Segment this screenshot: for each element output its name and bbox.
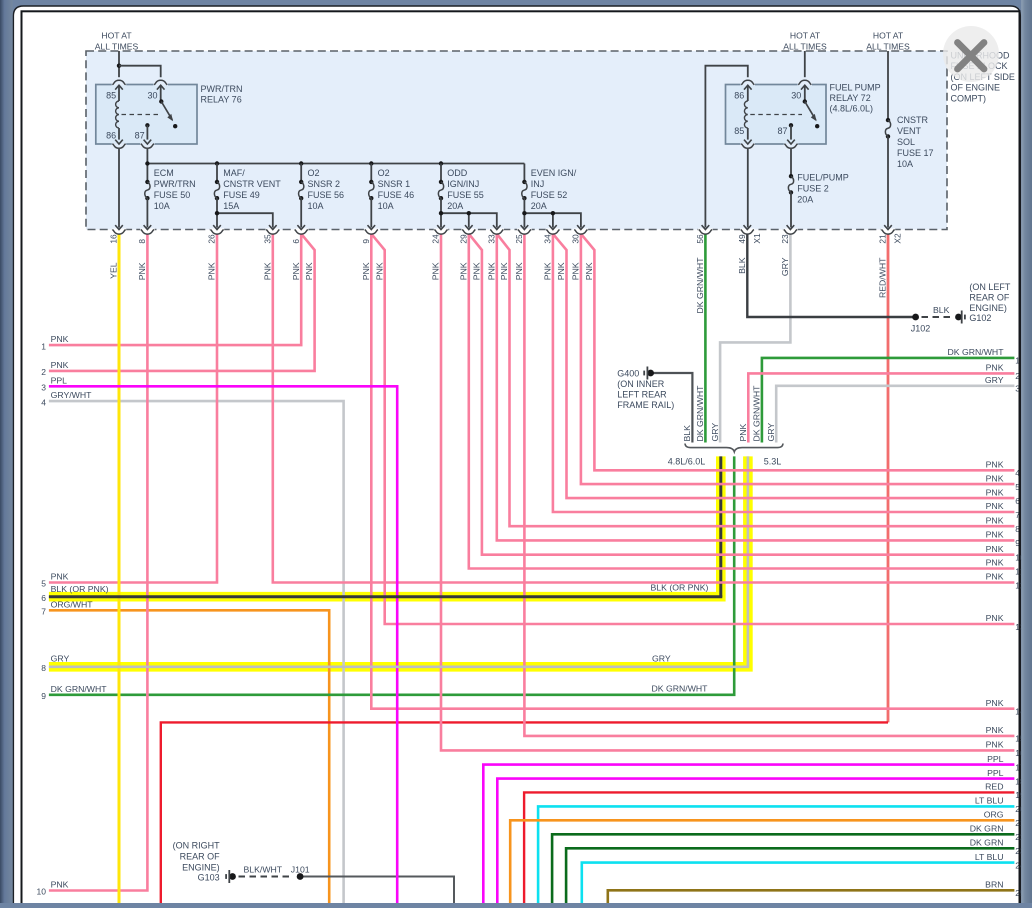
svg-text:SNSR 2: SNSR 2 [308, 179, 341, 189]
svg-text:PNK: PNK [262, 262, 272, 280]
svg-text:PNK: PNK [986, 501, 1004, 511]
arrow into relay76 pin 30 [157, 85, 165, 89]
svg-text:23: 23 [780, 234, 790, 244]
svg-text:BLK: BLK [682, 425, 692, 442]
fuse F49 MAF/CNSTR VENT 15A [216, 164, 218, 182]
svg-text:24: 24 [431, 234, 441, 244]
wire RED highlighted run to bottom [161, 722, 888, 903]
wire PNK pin 33 to right edge 9 [497, 234, 1015, 541]
svg-text:BLK: BLK [737, 257, 747, 274]
collar relay76 pin 87 [141, 144, 154, 149]
svg-text:FRAME RAIL): FRAME RAIL) [617, 400, 674, 410]
svg-text:PNK: PNK [514, 262, 524, 280]
svg-text:DK GRN/WHT: DK GRN/WHT [695, 385, 705, 442]
wire BLK G400 to brace [651, 373, 693, 443]
brace engine variants [685, 444, 783, 452]
wire YEL pin 16 down [118, 234, 121, 903]
svg-text:PNK: PNK [499, 262, 509, 280]
svg-text:PNK: PNK [986, 544, 1004, 554]
svg-text:PNK: PNK [584, 262, 594, 280]
wire BLK/WHT J101 run to bottom [300, 877, 454, 904]
svg-text:PNK: PNK [738, 423, 748, 441]
relay76 coil wire pin 85 to 86 [118, 85, 120, 101]
fuse F56 O2 SNSR2 10A [300, 164, 302, 182]
connector pin 8 [140, 229, 154, 232]
svg-text:PNK: PNK [486, 262, 496, 280]
svg-text:GRY: GRY [710, 423, 720, 442]
svg-text:PNK: PNK [986, 460, 1004, 470]
svg-text:3: 3 [41, 383, 46, 393]
relay76 switch contact [173, 124, 177, 128]
wire PNK pin 9 branch to right edge 13 [371, 234, 1014, 624]
relay72 pin 87 node [789, 123, 793, 127]
svg-text:X2: X2 [893, 233, 903, 244]
wire PNK 5.3L to right edge 2 [748, 373, 1014, 442]
wire DK GRN right edge 23 to bottom [566, 848, 1014, 903]
svg-text:20A: 20A [531, 201, 547, 211]
svg-text:(4.8L/6.0L): (4.8L/6.0L) [830, 103, 874, 113]
wire 6 core BLK (OR PNK) horizontal [49, 595, 722, 598]
svg-text:(ON LEFT: (ON LEFT [969, 282, 1011, 292]
svg-text:7: 7 [41, 607, 46, 617]
relay76 coil [116, 101, 119, 128]
connector pin 29 [462, 229, 476, 232]
svg-text:PNK: PNK [986, 725, 1004, 735]
svg-text:DK GRN: DK GRN [970, 838, 1004, 848]
wire PNK pin 29 to right edge 11 [469, 234, 1015, 569]
svg-text:5: 5 [41, 579, 46, 589]
wire LT BLU right edge 24 to bottom [582, 863, 1015, 903]
svg-text:G103: G103 [198, 872, 220, 882]
svg-text:ENGINE): ENGINE) [182, 862, 220, 872]
svg-text:56: 56 [695, 234, 705, 244]
feed wire HOT AT ALL TIMES relay72 pin 30 [804, 51, 806, 77]
svg-text:GRY: GRY [985, 375, 1004, 385]
wire relay76 pin87 to fuse bus [146, 149, 148, 182]
svg-text:MAF/: MAF/ [223, 168, 245, 178]
svg-text:VENT: VENT [897, 126, 922, 136]
svg-text:PNK: PNK [374, 262, 384, 280]
wire ORG/WHT left edge 7 down [49, 610, 329, 903]
svg-text:25: 25 [514, 234, 524, 244]
svg-text:DK GRN: DK GRN [970, 824, 1004, 834]
bus junction nodes [145, 161, 149, 165]
wire PNK pin 34 to right edge 7 [553, 234, 1015, 512]
relay box FUEL PUMP RELAY 72 [726, 85, 827, 145]
svg-text:4: 4 [41, 397, 46, 407]
connector pin 34 [546, 229, 560, 232]
arrow out relay76 pin 87 [144, 140, 152, 144]
wire GRY pin 23 to brace [720, 234, 790, 443]
svg-text:PNK: PNK [543, 262, 553, 280]
relay76 switch pivot pin 30 [160, 85, 162, 101]
svg-text:PNK: PNK [137, 262, 147, 280]
ground G400 [647, 370, 654, 377]
svg-text:GRY: GRY [51, 653, 70, 663]
arrow into relay72 pin 30 [801, 85, 809, 89]
wire DK GRN/WHT 5.3L to right edge 1 [762, 358, 1015, 443]
wire relay72 pin87 to fuse 2 [790, 149, 792, 176]
connector pin 24 [434, 229, 448, 232]
svg-text:1: 1 [41, 341, 46, 351]
svg-text:PNK: PNK [986, 487, 1004, 497]
relay72 coil [744, 101, 747, 128]
svg-text:G400: G400 [617, 369, 639, 379]
svg-text:ECM: ECM [154, 168, 174, 178]
svg-text:INJ: INJ [531, 179, 545, 189]
connector pin 6 [294, 229, 308, 232]
F49 split bar [217, 213, 273, 227]
svg-text:HOT AT: HOT AT [101, 31, 132, 41]
wire PNK pin 6 to left edge 1 [49, 234, 301, 345]
svg-text:RELAY 72: RELAY 72 [830, 93, 871, 103]
svg-text:10A: 10A [308, 201, 324, 211]
wire PNK pin 30 to right edge 5 [581, 234, 1015, 484]
wire relay72 pin85 to pin49 exit [747, 149, 749, 228]
arrow out relay72 pin 85 [744, 140, 752, 144]
svg-text:15A: 15A [223, 201, 239, 211]
wire branch to relay 76 pin 30 [119, 66, 161, 78]
svg-text:87: 87 [777, 126, 787, 136]
wire PPL right edge 17 to bottom [483, 765, 1014, 903]
svg-text:CNSTR VENT: CNSTR VENT [223, 179, 281, 189]
svg-text:O2: O2 [378, 168, 390, 178]
svg-text:EVEN IGN/: EVEN IGN/ [531, 168, 577, 178]
wire ORG right edge 21 to bottom [510, 820, 1014, 903]
svg-text:FUSE 55: FUSE 55 [447, 190, 484, 200]
svg-text:DK GRN/WHT: DK GRN/WHT [752, 385, 762, 442]
svg-text:DK GRN/WHT: DK GRN/WHT [51, 684, 108, 694]
svg-text:8: 8 [137, 239, 147, 244]
arrow out relay72 pin 87 [787, 140, 795, 144]
connector pin 9 [364, 229, 378, 232]
svg-text:GRY: GRY [652, 653, 671, 663]
close button [943, 26, 999, 82]
connector pin 21 [881, 229, 895, 232]
svg-text:PNK: PNK [986, 530, 1004, 540]
wire 8 core GRY horizontal [49, 665, 749, 668]
svg-text:CNSTR: CNSTR [897, 115, 928, 125]
svg-text:PNK: PNK [571, 262, 581, 280]
wire PNK pin 9 to right edge 14 [371, 234, 1014, 709]
svg-text:GRY: GRY [766, 423, 776, 442]
relay76 pin 87 wire [146, 125, 148, 139]
svg-text:REAR OF: REAR OF [180, 851, 221, 861]
collar relay72 pin 87 [784, 144, 797, 149]
connector pin 35 [266, 229, 280, 232]
svg-text:LT BLU: LT BLU [975, 852, 1004, 862]
svg-text:ALL TIMES: ALL TIMES [95, 41, 139, 51]
svg-text:49: 49 [737, 234, 747, 244]
F52 split bar [524, 213, 581, 227]
relay box PWR/TRN RELAY 76 [96, 85, 197, 145]
svg-text:BLK (OR PNK): BLK (OR PNK) [651, 583, 709, 593]
fuse CNSTR VENT SOL FUSE 17 10A [886, 118, 890, 122]
wire PNK pin 29 branch to right edge 10 [469, 234, 1015, 555]
svg-text:16: 16 [109, 234, 119, 244]
svg-text:ALL TIMES: ALL TIMES [783, 41, 827, 51]
svg-text:FUSE 52: FUSE 52 [531, 190, 568, 200]
svg-text:GRY: GRY [780, 257, 790, 276]
arrow out relay76 pin 86 [115, 140, 123, 144]
collar relay72 pin 30 [798, 80, 811, 85]
svg-text:J102: J102 [911, 324, 931, 334]
svg-text:PNK: PNK [458, 262, 468, 280]
svg-text:4.8L/6.0L: 4.8L/6.0L [668, 456, 706, 466]
svg-text:10A: 10A [897, 159, 913, 169]
wire PNK pin 24 to right edge 16 [441, 234, 1014, 751]
wire PNK pin 8 to left edge 10 [49, 234, 147, 891]
wire 8 core vertical segment [747, 456, 750, 666]
svg-text:PNK: PNK [207, 262, 217, 280]
relay72 switch contact [815, 124, 819, 128]
relay72 switch blade [805, 102, 816, 120]
svg-text:(ON INNER: (ON INNER [617, 379, 665, 389]
svg-text:PNK: PNK [986, 740, 1004, 750]
svg-text:OF ENGINE: OF ENGINE [951, 83, 1001, 93]
svg-text:ENGINE): ENGINE) [969, 303, 1007, 313]
svg-text:DK GRN/WHT: DK GRN/WHT [652, 684, 709, 694]
junction node relay 76 feed [117, 63, 121, 67]
svg-text:30: 30 [791, 91, 801, 101]
wire PPL right edge 18 to bottom [497, 779, 1014, 903]
svg-text:PNK: PNK [986, 613, 1004, 623]
svg-text:PNK: PNK [986, 572, 1004, 582]
connector pin 33 [490, 229, 504, 232]
wire PNK pin 34 branch to right edge 6 [553, 234, 1015, 498]
fuse F52 EVEN IGN/INJ 20A [523, 164, 525, 182]
relay72 pin 87 wire [790, 125, 792, 139]
svg-text:PPL: PPL [987, 768, 1004, 778]
arrow into relay72 pin 86 [744, 85, 752, 89]
svg-text:ORG/WHT: ORG/WHT [51, 599, 94, 609]
svg-text:SOL: SOL [897, 137, 915, 147]
svg-text:9: 9 [361, 239, 371, 244]
relay72 coil wire [747, 85, 749, 101]
wire PNK pin 30 branch to right edge 4 [581, 234, 1015, 470]
collar relay76 pin 30 [154, 80, 167, 85]
wire PPL left edge 3 down [49, 386, 397, 903]
wire CNSTR VENT SOL fuse feed [887, 51, 889, 120]
svg-text:GRY/WHT: GRY/WHT [51, 390, 93, 400]
svg-text:DK GRN/WHT: DK GRN/WHT [695, 257, 705, 314]
connector pin 49 [740, 229, 754, 232]
fuse bus [147, 163, 524, 165]
svg-text:20A: 20A [797, 194, 813, 204]
svg-text:ALL TIMES: ALL TIMES [866, 41, 910, 51]
svg-text:30: 30 [571, 234, 581, 244]
connector pin 23 [783, 229, 797, 232]
fuse FUEL/PUMP FUSE 2 20A [789, 174, 793, 178]
connector pin 16 [112, 229, 126, 232]
wire relay72 pin 86 up-over-down to pin 56 exit [705, 66, 747, 228]
svg-text:HOT AT: HOT AT [873, 31, 904, 41]
svg-text:86: 86 [734, 91, 744, 101]
svg-text:10: 10 [37, 887, 47, 897]
svg-text:10A: 10A [154, 201, 170, 211]
svg-text:BLK: BLK [933, 305, 950, 315]
svg-text:BLK/WHT: BLK/WHT [244, 864, 283, 874]
svg-text:PNK: PNK [51, 572, 69, 582]
wire 6 core vertical segment [719, 456, 722, 596]
svg-text:PNK: PNK [51, 360, 69, 370]
svg-text:PNK: PNK [361, 262, 371, 280]
svg-text:RED/WHT: RED/WHT [878, 257, 888, 298]
svg-text:PPL: PPL [51, 375, 68, 385]
svg-text:LT BLU: LT BLU [975, 796, 1004, 806]
svg-text:21: 21 [878, 234, 888, 244]
svg-text:FUSE 50: FUSE 50 [154, 190, 191, 200]
svg-text:34: 34 [543, 234, 553, 244]
svg-text:O2: O2 [308, 168, 320, 178]
collar relay76 pin 85 [112, 80, 125, 85]
svg-text:33: 33 [486, 234, 496, 244]
svg-text:FUSE 17: FUSE 17 [897, 148, 934, 158]
wire BLK pin 49 to J102 [747, 234, 915, 317]
svg-text:2: 2 [41, 367, 46, 377]
collar relay76 pin 86 [112, 144, 125, 149]
wire BRN right edge 25 to bottom [608, 890, 1015, 903]
svg-text:30: 30 [147, 91, 157, 101]
svg-text:85: 85 [734, 126, 744, 136]
highlight band wire 6 BLK (OR PNK) [49, 456, 721, 596]
wire PNK pin 26 to left edge 5 [49, 234, 217, 583]
wire PNK pin 35 to right edge 12 [273, 234, 1015, 583]
svg-text:(ON RIGHT: (ON RIGHT [173, 840, 220, 850]
svg-text:85: 85 [106, 91, 116, 101]
wire DK GRN right edge 22 to bottom [552, 834, 1014, 903]
highlight band wire 8 GRY [49, 456, 748, 666]
svg-text:HOT AT: HOT AT [790, 31, 821, 41]
svg-text:6: 6 [291, 239, 301, 244]
svg-text:86: 86 [106, 131, 116, 141]
svg-text:20A: 20A [447, 201, 463, 211]
svg-text:REAR OF: REAR OF [969, 293, 1010, 303]
svg-text:IGN/INJ: IGN/INJ [447, 179, 479, 189]
collar relay72 pin 85 [741, 144, 754, 149]
svg-text:PNK: PNK [291, 262, 301, 280]
svg-text:FUSE 46: FUSE 46 [378, 190, 415, 200]
svg-text:ORG: ORG [984, 810, 1004, 820]
connector pin 25 [517, 229, 531, 232]
connector pin 26 [210, 229, 224, 232]
svg-text:PNK: PNK [431, 262, 441, 280]
svg-text:PNK: PNK [986, 515, 1004, 525]
wire relay76 pin86 to pin16 exit [118, 149, 120, 228]
svg-text:PNK: PNK [986, 473, 1004, 483]
svg-text:9: 9 [41, 691, 46, 701]
fuse F46 O2 SNSR1 10A [370, 164, 372, 182]
svg-text:10A: 10A [378, 201, 394, 211]
relay72 link dashed line [750, 114, 802, 116]
wire PNK pin 25 to right edge 15 [524, 234, 1014, 736]
svg-text:SNSR 1: SNSR 1 [378, 179, 411, 189]
svg-text:8: 8 [41, 663, 46, 673]
fuse F55 ODD IGN/INJ 20A [440, 164, 442, 182]
svg-text:RED: RED [985, 782, 1003, 792]
wire PNK pin 33 branch to right edge 8 [497, 234, 1015, 526]
relay76 switch blade [161, 102, 172, 120]
ground G103 and splice J101 [229, 873, 236, 880]
relay72 switch pivot pin 30 [804, 85, 806, 101]
svg-text:FUSE 49: FUSE 49 [223, 190, 260, 200]
svg-text:BLK (OR PNK): BLK (OR PNK) [51, 584, 109, 594]
F55 split bar [441, 213, 497, 227]
svg-text:PNK: PNK [51, 334, 69, 344]
svg-text:FUSE 56: FUSE 56 [308, 190, 345, 200]
svg-text:FUEL/PUMP: FUEL/PUMP [797, 172, 849, 182]
svg-text:PPL: PPL [987, 754, 1004, 764]
splice J102 and ground G102 [912, 314, 919, 321]
relay76 link dashed line [122, 114, 159, 116]
wire DK GRN/WHT wire 9 brace to left edge [49, 456, 734, 694]
svg-text:RELAY 76: RELAY 76 [201, 95, 242, 105]
svg-text:PWR/TRN: PWR/TRN [154, 179, 196, 189]
connector pin 56 [698, 229, 712, 232]
svg-text:5.3L: 5.3L [764, 456, 782, 466]
svg-text:29: 29 [458, 234, 468, 244]
connector pin 30 [574, 229, 588, 232]
svg-text:G102: G102 [969, 313, 991, 323]
wire RED right edge 19 to bottom [524, 792, 1014, 903]
svg-text:J101: J101 [291, 864, 310, 874]
collar relay72 pin 86 [741, 80, 754, 85]
svg-text:PNK: PNK [556, 262, 566, 280]
svg-text:26: 26 [207, 234, 217, 244]
wire PNK pin 6 branch to left edge 2 [49, 234, 315, 371]
underhood fuse block (dashed box) [86, 51, 947, 230]
svg-text:PNK: PNK [986, 698, 1004, 708]
wire DK GRN/WHT pin 56 to brace [704, 234, 707, 443]
svg-text:BRN: BRN [985, 880, 1003, 890]
svg-text:ODD: ODD [447, 168, 468, 178]
svg-text:YEL: YEL [109, 262, 119, 279]
svg-text:FUEL PUMP: FUEL PUMP [830, 82, 881, 92]
svg-text:PNK: PNK [304, 262, 314, 280]
fuse F50 ECM PWR/TRN 10A [145, 180, 149, 184]
arrow into relay76 pin 85 [115, 85, 123, 89]
wire LT BLU right edge 20 to bottom [538, 806, 1014, 903]
svg-text:X1: X1 [752, 233, 762, 244]
svg-text:PNK: PNK [986, 363, 1004, 373]
wire GRY/WHT left edge 4 down [49, 401, 344, 903]
svg-text:35: 35 [262, 234, 272, 244]
svg-text:DK GRN/WHT: DK GRN/WHT [948, 347, 1005, 357]
wire GRY 5.3L to right edge 3 [776, 386, 1014, 443]
svg-text:PNK: PNK [51, 880, 69, 890]
svg-text:PWR/TRN: PWR/TRN [201, 84, 243, 94]
svg-text:6: 6 [41, 593, 46, 603]
svg-text:LEFT REAR: LEFT REAR [617, 389, 667, 399]
svg-text:87: 87 [135, 131, 145, 141]
svg-text:PNK: PNK [472, 262, 482, 280]
svg-text:PNK: PNK [986, 558, 1004, 568]
feed wire HOT AT ALL TIMES left [118, 51, 120, 77]
wire RED/WHT pin 21 down [887, 234, 890, 723]
svg-text:COMPT): COMPT) [951, 93, 987, 103]
relay76 pin 87 node [145, 123, 149, 127]
svg-text:FUSE 2: FUSE 2 [797, 183, 829, 193]
